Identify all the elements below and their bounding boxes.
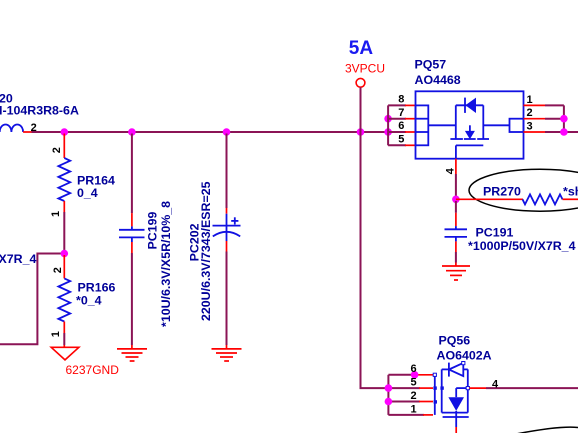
transistor PQ57 body — [416, 91, 524, 158]
svg-text:4: 4 — [492, 378, 499, 390]
substrate arrow of PQ57 — [465, 125, 475, 139]
resistor PR164 — [58, 134, 70, 213]
svg-text:*sh: *sh — [563, 184, 578, 198]
inductor PL20 — [0, 125, 23, 133]
svg-text:1: 1 — [50, 331, 62, 337]
node junction dot main wire at bracket pin6 — [384, 128, 392, 136]
svg-text:*1000P/50V/X7R_4: *1000P/50V/X7R_4 — [468, 239, 576, 253]
wire bracket to PQ56 left pins — [388, 375, 424, 415]
value label X7R_4 (off-screen component) — [0, 252, 36, 266]
svg-text:X7R_4: X7R_4 — [0, 252, 36, 266]
pin stubs PQ57 right (red) — [524, 105, 546, 132]
capacitor PC202 value label (rotated) — [199, 181, 213, 321]
svg-text:6: 6 — [411, 363, 417, 375]
wire main net 3VPCU horizontal — [32, 131, 389, 133]
pin number 4 of PQ57 (rotated) — [445, 167, 457, 174]
inductor pin 2 stub — [23, 131, 32, 133]
pin number 2 of PR166 (rotated) — [52, 267, 64, 273]
svg-text:PC191: PC191 — [476, 225, 514, 239]
node junction dot right pin3 — [560, 128, 568, 136]
svg-text:1: 1 — [50, 211, 62, 217]
plus sign of PC202 — [231, 217, 238, 224]
body diode of PQ56 — [449, 362, 465, 377]
resistor PR270 — [456, 194, 578, 204]
ground symbol at PC202 — [212, 345, 242, 361]
wire bracket to PQ57 left pins — [388, 105, 406, 145]
ground label 6237GND — [66, 363, 120, 377]
net label 5A — [349, 38, 374, 59]
svg-text:2: 2 — [411, 390, 417, 402]
svg-text:*10U/6.3V/X5R/10%_8: *10U/6.3V/X5R/10%_8 — [159, 201, 173, 327]
resistor PR164 refdes label — [77, 174, 115, 188]
pin number 2 of PQ56 — [411, 390, 417, 402]
ground symbol at PC191 — [442, 263, 470, 281]
transistor PQ57 refdes label — [415, 57, 447, 71]
wire PR166 to ground — [63, 333, 65, 345]
ellipse highlight around PR270 — [469, 169, 578, 211]
capacitor PC191 refdes label — [476, 225, 514, 239]
transistor PQ56 body — [442, 369, 468, 412]
pin number 6 of PQ57 — [398, 120, 404, 132]
net label 3VPCU — [345, 61, 385, 75]
pin number 8 of PQ57 — [398, 94, 404, 106]
transistor PQ56 refdes label — [439, 333, 471, 347]
svg-text:5: 5 — [398, 134, 404, 146]
transistor PQ57 value label AO4468 — [415, 73, 461, 87]
node junction dot PQ56 bracket pin5 — [385, 384, 393, 392]
node junction dot at PC202 — [223, 128, 231, 136]
capacitor PC202 refdes label (rotated) — [187, 223, 201, 261]
pin number 2 of inductor — [31, 122, 37, 134]
wire PQ57 output right — [545, 105, 578, 132]
wire from left X7R_4 net — [0, 254, 64, 345]
gate plate of PQ57 — [456, 145, 483, 158]
svg-text:PR270: PR270 — [483, 184, 521, 198]
svg-text:5: 5 — [411, 377, 417, 389]
node junction dot bracket pin7 — [384, 115, 392, 123]
svg-text:PC199: PC199 — [146, 212, 160, 250]
pin number 2 of PQ57 — [527, 107, 533, 119]
resistor PR166 refdes label — [78, 281, 116, 295]
capacitor PC199 refdes label (rotated) — [146, 212, 160, 250]
node junction dot PQ56 bracket pin2 — [385, 398, 393, 406]
PQ56 pin column and squares — [433, 373, 444, 415]
svg-text:0_4: 0_4 — [77, 186, 98, 200]
pin number 1 of PQ56 — [411, 403, 417, 415]
pin number 5 of PQ56 — [411, 377, 417, 389]
svg-text:1: 1 — [411, 403, 417, 415]
svg-text:AO6402A: AO6402A — [437, 349, 492, 363]
node junction dot at PC199 — [128, 128, 136, 136]
channel bars of PQ57 — [450, 138, 489, 140]
wire from 3VPCU circle down to main net — [360, 87, 362, 132]
MOSFET arrow of PQ56 — [448, 388, 467, 417]
pin number 1 of PR164 (rotated) — [50, 211, 62, 217]
node junction dot PR164/PR166 — [61, 250, 69, 258]
pin number 5 of PQ57 — [398, 134, 404, 146]
wire 3VPCU down to PQ56 — [361, 132, 389, 388]
svg-text:6: 6 — [398, 120, 404, 132]
svg-text:2: 2 — [51, 147, 63, 153]
pin number 1 of PQ57 — [527, 94, 533, 106]
pin number 6 of PQ56 — [411, 363, 417, 375]
svg-text:I-104R3R8-6A: I-104R3R8-6A — [0, 104, 79, 118]
svg-text:4: 4 — [445, 167, 457, 174]
svg-text:*0_4: *0_4 — [76, 293, 102, 307]
node junction dot at PR164 — [61, 128, 69, 136]
svg-text:PQ56: PQ56 — [439, 333, 471, 347]
svg-text:8: 8 — [398, 94, 404, 106]
capacitor PC191 — [445, 201, 468, 263]
wire PR164 to node — [63, 212, 65, 254]
svg-text:3: 3 — [527, 121, 533, 133]
svg-text:220U/6.3V/7343/ESR=25: 220U/6.3V/7343/ESR=25 — [199, 181, 213, 321]
ground 6237GND triangle symbol — [51, 345, 79, 360]
pin stubs PQ56 left (red) — [413, 375, 433, 415]
pin 4 of PQ56 — [466, 387, 578, 390]
node junction dot at 3VPCU branch — [357, 128, 365, 136]
svg-text:5A: 5A — [349, 38, 374, 59]
svg-text:PQ57: PQ57 — [415, 57, 447, 71]
pin stubs PQ57 left (red) — [405, 105, 416, 145]
power symbol 3VPCU circle — [356, 78, 365, 87]
node junction dot PQ56 pin6 stub — [411, 371, 419, 379]
pin 4 stub of PQ57 (red) and wire down — [455, 159, 457, 199]
svg-text:2: 2 — [52, 267, 64, 273]
pin number 1 of PR166 (rotated) — [50, 331, 62, 337]
svg-text:AO4468: AO4468 — [415, 73, 461, 87]
capacitor PC191 value label — [468, 239, 576, 253]
ellipse arc bottom right — [516, 427, 578, 433]
capacitor PC199 value label (rotated) — [159, 201, 173, 327]
pin number 2 of PR164 (rotated) — [51, 147, 63, 153]
source bar of PQ56 — [443, 417, 469, 433]
svg-text:3VPCU: 3VPCU — [345, 61, 385, 75]
pin number 7 of PQ57 — [398, 107, 404, 119]
transistor PQ56 value label AO6402A — [437, 349, 492, 363]
svg-text:2: 2 — [527, 107, 533, 119]
resistor PR166 value label — [76, 293, 102, 307]
resistor PR270 refdes label — [483, 184, 521, 198]
inductor PL20 refdes label "20" — [0, 91, 13, 105]
pin number 4 of PQ56 — [492, 378, 499, 390]
node junction dot PQ57 pin4 / PR270 / PC191 — [452, 196, 460, 204]
resistor PR164 value label — [77, 186, 98, 200]
body diode of PQ57 — [465, 98, 476, 113]
svg-text:7: 7 — [398, 107, 404, 119]
resistor PR270 value label (partial) — [563, 184, 578, 198]
node junction dot right pin2 — [560, 115, 568, 123]
resistor PR166 — [58, 255, 70, 333]
ground symbol at PC199 — [117, 345, 147, 361]
inductor PL20 value label "I-104R3R8-6A" — [0, 104, 79, 118]
capacitor PC199 — [119, 134, 145, 346]
capacitor PC202 (polarized) — [213, 134, 241, 346]
svg-text:1: 1 — [527, 94, 533, 106]
svg-text:6237GND: 6237GND — [66, 363, 120, 377]
pin number 3 of PQ57 — [527, 121, 533, 133]
